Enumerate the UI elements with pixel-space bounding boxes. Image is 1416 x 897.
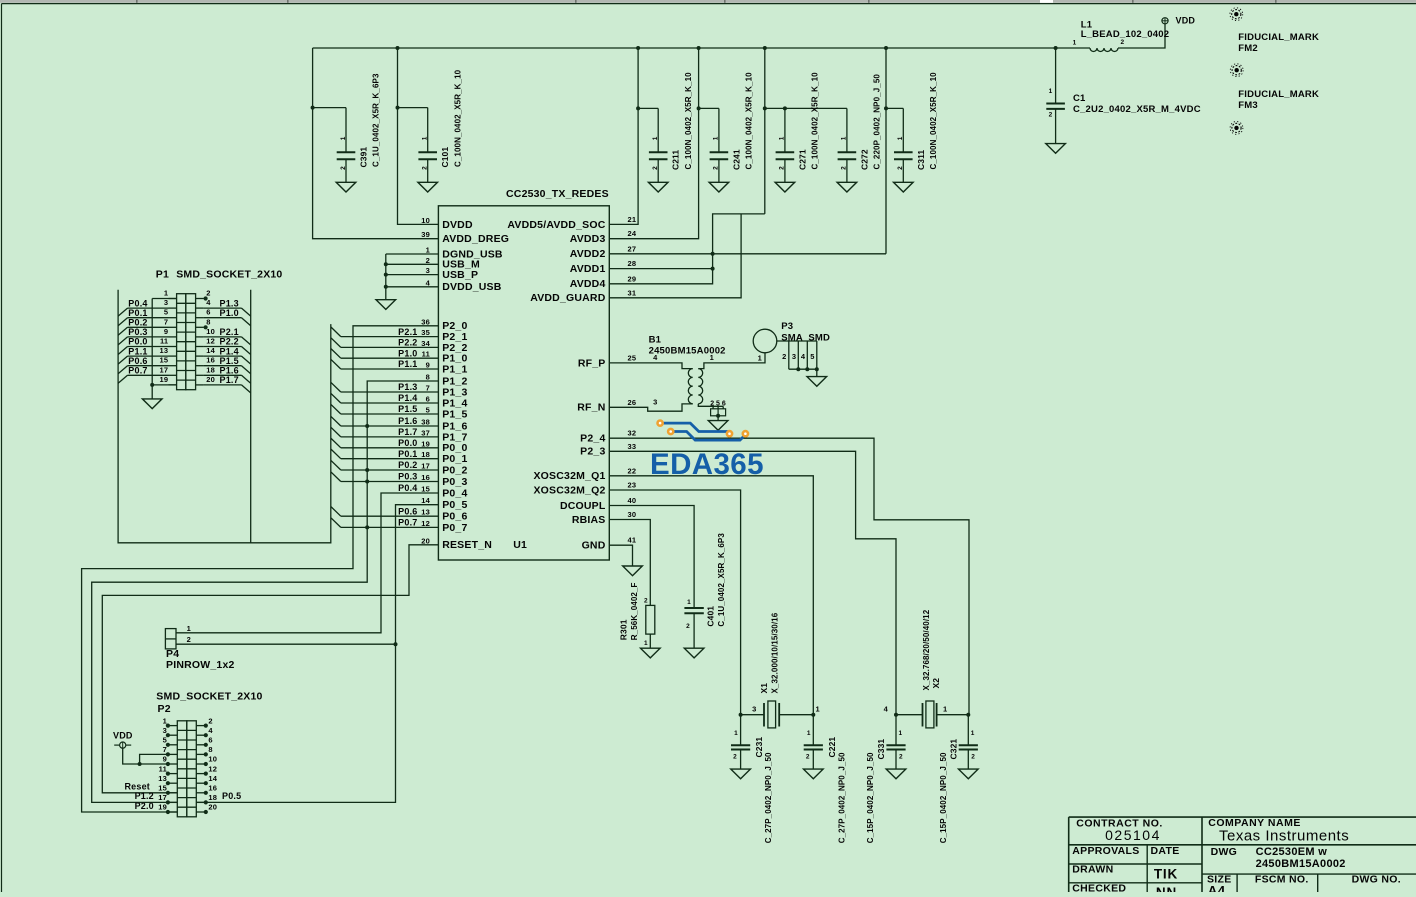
- svg-text:34: 34: [421, 339, 430, 348]
- svg-text:16: 16: [206, 356, 215, 365]
- svg-text:10: 10: [208, 755, 217, 764]
- sheet border top: [2, 3, 1416, 5]
- wire XOSC32M_Q2 net (pin 23 to X1 left): [609, 490, 740, 715]
- top gray ruler bar: [0, 0, 1416, 3]
- node junction C391: [311, 106, 315, 110]
- svg-text:1: 1: [1073, 40, 1077, 47]
- pin 2 P2 right stub: [196, 725, 204, 727]
- svg-text:8: 8: [426, 373, 430, 382]
- wire C391 lead to gnd: [345, 159, 347, 182]
- svg-text:P0_1: P0_1: [442, 453, 467, 465]
- wire balun secondary bottom to pins 2,5,6: [698, 404, 723, 406]
- svg-text:19: 19: [421, 439, 430, 448]
- svg-text:20: 20: [208, 803, 217, 812]
- svg-text:23: 23: [628, 481, 637, 490]
- node junction P1 pin19: [150, 383, 154, 387]
- pin 5 P1 left stub: [169, 317, 177, 319]
- node junction P3 pin3: [796, 367, 800, 371]
- svg-text:25: 25: [628, 353, 637, 362]
- svg-text:AVDD_DREG: AVDD_DREG: [442, 233, 509, 245]
- wire P1.4 to U1: [341, 402, 439, 404]
- wire P0.0 bus entry: [331, 438, 341, 448]
- svg-text:4: 4: [653, 353, 658, 362]
- wire P0.6 to P1: [128, 365, 169, 367]
- svg-text:3: 3: [164, 298, 168, 307]
- pin 13 P2 left stub: [170, 782, 178, 784]
- pin 18 P1 right stub: [196, 374, 204, 376]
- svg-text:2: 2: [733, 754, 737, 761]
- svg-text:6: 6: [426, 395, 430, 404]
- svg-text:27: 27: [628, 244, 637, 253]
- svg-text:P1.7: P1.7: [398, 427, 417, 437]
- svg-text:1: 1: [897, 136, 904, 140]
- node junction VDD: [138, 762, 142, 766]
- svg-text:2: 2: [782, 352, 786, 361]
- svg-text:1: 1: [687, 599, 691, 606]
- svg-text:8: 8: [206, 317, 210, 326]
- wire P0.4 to P1: [128, 307, 169, 309]
- svg-text:2: 2: [841, 166, 848, 170]
- svg-text:18: 18: [208, 793, 217, 802]
- svg-text:17: 17: [158, 793, 167, 802]
- transformer B1 right winding: [698, 369, 702, 404]
- svg-text:P0_4: P0_4: [442, 487, 467, 499]
- pin 11 P2 left stub: [170, 773, 178, 775]
- svg-text:C401: C401: [706, 606, 716, 627]
- svg-text:2: 2: [426, 256, 430, 265]
- svg-text:FIDUCIAL_MARK: FIDUCIAL_MARK: [1238, 89, 1319, 100]
- pin 18 P2 right stub: [196, 801, 204, 803]
- svg-text:P1.5: P1.5: [220, 356, 239, 366]
- svg-text:2: 2: [899, 754, 903, 761]
- logo pad 1: [658, 421, 663, 426]
- wire P0.1 bus entry: [118, 318, 127, 326]
- pin 14 P2 right stub: [196, 782, 204, 784]
- svg-text:3: 3: [792, 352, 796, 361]
- wire P2.2 from P1: [204, 346, 242, 348]
- node junction P1.2/P0.7: [365, 525, 369, 529]
- svg-text:DWG NO.: DWG NO.: [1352, 873, 1401, 885]
- svg-text:C1: C1: [1073, 93, 1086, 104]
- svg-text:VDD: VDD: [1176, 16, 1196, 26]
- ground C1: [1046, 144, 1066, 154]
- svg-text:6: 6: [206, 308, 210, 317]
- svg-text:X1: X1: [759, 683, 769, 694]
- wire AVDD_DREG (C391 stem down to U1 pin 39): [313, 48, 439, 239]
- svg-text:AVDD5/AVDD_SOC: AVDD5/AVDD_SOC: [507, 219, 605, 231]
- svg-text:C_100N_0402_X5R_K_10: C_100N_0402_X5R_K_10: [745, 72, 754, 170]
- power VDD P2: [120, 742, 126, 748]
- svg-text:5: 5: [716, 400, 720, 407]
- svg-text:33: 33: [628, 442, 637, 451]
- svg-text:1: 1: [943, 705, 947, 714]
- wire C311 lead: [902, 159, 904, 182]
- capacitor C221 stem: [812, 715, 814, 746]
- pin 17 P1 left stub: [169, 374, 177, 376]
- wire P1.7 bus entry: [242, 385, 251, 393]
- wire P1.1 to P1: [128, 355, 169, 357]
- op-amp U1 CC2530_TX_REDES body: [438, 206, 609, 560]
- svg-text:8: 8: [208, 745, 212, 754]
- wire P1.0 from P1: [204, 317, 242, 319]
- wire RF_N (pin 26 to balun pin 3): [609, 404, 692, 411]
- svg-text:20: 20: [206, 375, 215, 384]
- svg-text:AVDD4: AVDD4: [570, 278, 606, 290]
- svg-text:C_27P_0402_NP0_J_50: C_27P_0402_NP0_J_50: [837, 752, 846, 843]
- svg-text:C272: C272: [859, 149, 869, 170]
- svg-text:SMD_SOCKET_2X10: SMD_SOCKET_2X10: [176, 269, 282, 281]
- wire P0.3 to P1: [128, 336, 169, 338]
- svg-text:2: 2: [971, 754, 975, 761]
- svg-text:P0.6: P0.6: [398, 506, 417, 516]
- wire P2.2 bus entry: [331, 338, 341, 348]
- capacitor C271: [776, 151, 795, 153]
- svg-text:XOSC32M_Q1: XOSC32M_Q1: [533, 470, 605, 482]
- wire DCOUPL net (pin 40 to C401): [609, 506, 694, 609]
- svg-text:32: 32: [628, 429, 637, 438]
- wire P2.2 bus entry: [242, 347, 251, 355]
- wire P0.7 bus entry: [331, 518, 341, 528]
- node junction C211: [636, 106, 640, 110]
- wire P1.5 bus entry: [242, 366, 251, 374]
- svg-text:P0.4: P0.4: [128, 298, 147, 308]
- wire L1 to VDD: [1118, 24, 1165, 48]
- pin 4 P2 right stub: [196, 734, 204, 736]
- node junction X2 left: [894, 713, 898, 717]
- svg-text:31: 31: [628, 288, 637, 297]
- svg-text:DWG: DWG: [1211, 846, 1238, 858]
- ground C241: [709, 182, 729, 192]
- svg-text:10: 10: [206, 327, 215, 336]
- node junction C101: [396, 106, 400, 110]
- svg-text:A4: A4: [1208, 884, 1226, 893]
- svg-text:RBIAS: RBIAS: [572, 514, 606, 526]
- svg-text:11: 11: [422, 350, 430, 359]
- svg-text:P1.4: P1.4: [398, 393, 417, 403]
- pin 10 P1 right stub: [196, 336, 204, 338]
- title block frame: [1069, 816, 1416, 818]
- connector P3 SMA_SMD circle: [753, 329, 777, 353]
- crystal X2: [896, 714, 923, 716]
- svg-text:7: 7: [164, 317, 168, 326]
- ground DGND_USB: [376, 300, 396, 310]
- wire AVDD3 net (pin 24 up to bus): [609, 48, 698, 239]
- wire P0.7 to P1: [128, 374, 169, 376]
- svg-text:TIK: TIK: [1154, 866, 1178, 881]
- ground C272: [837, 182, 857, 192]
- svg-text:P1.1: P1.1: [398, 359, 417, 369]
- svg-text:AVDD1: AVDD1: [570, 263, 606, 275]
- svg-text:P0_2: P0_2: [442, 464, 467, 476]
- wire AVDD_SOC / C311 riser (pin 27 long wire): [885, 48, 887, 254]
- svg-text:C241: C241: [731, 149, 741, 170]
- wire P1.6 bus entry: [242, 375, 251, 383]
- pin 14 P1 right stub: [196, 355, 204, 357]
- svg-text:5: 5: [164, 308, 168, 317]
- wire P0.1 to P1: [128, 317, 169, 319]
- svg-text:P0.5: P0.5: [222, 791, 241, 801]
- svg-text:35: 35: [421, 328, 430, 337]
- svg-text:13: 13: [421, 508, 430, 517]
- wire P0.2 bus entry: [331, 460, 341, 470]
- svg-text:B1: B1: [649, 334, 662, 345]
- wire P0.2 to U1: [341, 469, 439, 471]
- svg-text:5: 5: [426, 406, 430, 415]
- node junction P1.2/P1.6: [365, 424, 369, 428]
- svg-text:Reset: Reset: [124, 782, 150, 792]
- wire P3 gnd lead: [816, 369, 818, 376]
- wire C101 top connection: [398, 107, 428, 109]
- svg-text:38: 38: [421, 418, 430, 427]
- pin 12 P1 right stub: [196, 346, 204, 348]
- node junction P3 pin5: [815, 367, 819, 371]
- svg-text:1: 1: [164, 289, 168, 298]
- wire C391 top connection: [313, 107, 346, 109]
- pin 15 P2 left stub: [170, 792, 178, 794]
- wire AVDD_GUARD (pin 31): [609, 214, 741, 298]
- fiducial mark FM3: [1234, 126, 1238, 130]
- pin 2 P1 unconnected dot: [204, 296, 208, 300]
- pin 9 P1 left stub: [169, 336, 177, 338]
- svg-text:3: 3: [752, 705, 756, 714]
- svg-text:Texas Instruments: Texas Instruments: [1219, 828, 1349, 845]
- svg-text:C_100N_0402_X5R_K_10: C_100N_0402_X5R_K_10: [684, 72, 693, 170]
- svg-text:2: 2: [710, 400, 714, 407]
- svg-text:P0.1: P0.1: [128, 308, 147, 318]
- svg-text:2: 2: [779, 166, 786, 170]
- svg-text:14: 14: [208, 774, 217, 783]
- svg-text:P2.0: P2.0: [135, 801, 154, 811]
- svg-text:6: 6: [722, 400, 726, 407]
- svg-text:AVDD_GUARD: AVDD_GUARD: [530, 292, 606, 304]
- pin 4 P1 right stub: [196, 307, 204, 309]
- wire Reset net (U1 pin20 RESET_N to P2 pin15): [102, 545, 438, 793]
- svg-text:1: 1: [652, 136, 659, 140]
- svg-text:P3: P3: [781, 321, 793, 332]
- svg-text:P0.3: P0.3: [398, 472, 417, 482]
- svg-text:16: 16: [421, 473, 430, 482]
- svg-text:10: 10: [421, 216, 430, 225]
- capacitor C101: [418, 151, 437, 153]
- node junction P0.5/P4: [394, 642, 398, 646]
- node junction balun gnd: [716, 414, 720, 418]
- ground P3: [807, 377, 827, 387]
- wire P1.3 from P1: [204, 307, 242, 309]
- node junction P3 pin4: [805, 367, 809, 371]
- svg-text:PINROW_1x2: PINROW_1x2: [166, 659, 235, 671]
- svg-text:C391: C391: [359, 147, 369, 168]
- balun pins 2,5,6 tie box: [711, 409, 726, 416]
- svg-text:3: 3: [163, 726, 167, 735]
- wire P1 gnd rail (pin1 to pin19): [151, 299, 153, 385]
- svg-text:C101: C101: [440, 147, 450, 168]
- wire P1.4 bus entry: [242, 356, 251, 364]
- wire P2_4 net (pin 32 to X2 right): [609, 438, 969, 715]
- svg-text:C221: C221: [827, 737, 837, 758]
- connector P1 body grid: [177, 294, 186, 390]
- svg-text:2: 2: [897, 166, 904, 170]
- svg-text:3: 3: [426, 266, 430, 275]
- svg-text:P2.2: P2.2: [220, 337, 239, 347]
- svg-text:C211: C211: [671, 150, 681, 170]
- capacitor C231: [731, 744, 750, 746]
- wire P3 shield pins: [777, 340, 817, 342]
- wire XOSC32M_Q1 net (pin 22 to X1 right): [609, 476, 813, 715]
- svg-text:14: 14: [206, 346, 215, 355]
- svg-text:1: 1: [1049, 88, 1053, 95]
- svg-text:24: 24: [628, 229, 637, 238]
- wire VDD to P2 pins 7,9: [123, 748, 170, 764]
- fiducial mark FM2: [1235, 68, 1239, 72]
- ground C271: [775, 182, 795, 192]
- pin 1 P1 left stub: [169, 298, 177, 300]
- wire P2.1 bus entry: [331, 327, 341, 337]
- capacitor C221: [804, 744, 823, 746]
- wire P1.0 bus entry: [331, 349, 341, 359]
- pin 7 P2 left stub: [170, 753, 178, 755]
- svg-text:P0.0: P0.0: [398, 438, 417, 448]
- svg-text:13: 13: [158, 774, 167, 783]
- svg-text:DATE: DATE: [1151, 845, 1180, 857]
- svg-text:C_220P_0402_NP0_J_50: C_220P_0402_NP0_J_50: [873, 74, 882, 170]
- pin 19 P2 left stub: [170, 811, 178, 813]
- svg-text:16: 16: [208, 784, 217, 793]
- pin 8 P1 right stub: [196, 326, 204, 328]
- svg-text:39: 39: [421, 230, 430, 239]
- wire C101 lead: [427, 159, 429, 182]
- svg-text:P0.2: P0.2: [128, 318, 147, 328]
- svg-text:CC2530_TX_REDES: CC2530_TX_REDES: [506, 188, 609, 200]
- svg-text:NN: NN: [1156, 885, 1177, 892]
- node junction C271 tap: [783, 106, 787, 110]
- ground C101: [418, 182, 438, 192]
- svg-text:C231: C231: [754, 737, 764, 758]
- wire P0.2 bus entry: [118, 327, 127, 335]
- svg-text:P1.1: P1.1: [128, 346, 147, 356]
- logo pad 4: [743, 431, 748, 436]
- wire P2.2 to U1: [341, 346, 439, 348]
- svg-text:5: 5: [163, 736, 167, 745]
- wire P1.3 to U1: [341, 391, 439, 393]
- wire P0.3 bus entry: [331, 472, 341, 482]
- capacitor C321 stem: [967, 715, 969, 746]
- svg-text:1: 1: [758, 353, 762, 362]
- node junction C311: [884, 106, 888, 110]
- svg-text:P0.1: P0.1: [398, 449, 417, 459]
- node junction C271 riser: [763, 106, 767, 110]
- inductor L1: [1090, 48, 1118, 52]
- node junction X1 right: [811, 713, 815, 717]
- ground R301: [641, 648, 661, 658]
- ground C331: [886, 769, 906, 779]
- svg-text:P1.3: P1.3: [220, 298, 239, 308]
- capacitor C401: [684, 607, 703, 609]
- pin 8 P2 right stub: [196, 753, 204, 755]
- svg-text:GND: GND: [582, 540, 606, 552]
- wire C321 lead: [967, 750, 969, 769]
- wire P0.0 to U1: [341, 447, 439, 449]
- svg-text:14: 14: [421, 496, 430, 505]
- svg-text:C_100N_0402_X5R_K_10: C_100N_0402_X5R_K_10: [811, 72, 820, 170]
- svg-text:P1.0: P1.0: [398, 348, 417, 358]
- wire top VDD bus: [313, 47, 1090, 49]
- wire C211 lead: [657, 159, 659, 182]
- svg-text:1: 1: [899, 730, 903, 737]
- svg-text:P1.7: P1.7: [220, 375, 239, 385]
- svg-text:P2.1: P2.1: [398, 327, 417, 337]
- wire P1.5 to U1: [341, 413, 439, 415]
- wire P1.7 to U1: [341, 436, 439, 438]
- pin 12 P2 right stub: [196, 773, 204, 775]
- svg-text:1: 1: [841, 136, 848, 140]
- wire P1.6 from P1: [204, 374, 242, 376]
- svg-text:2: 2: [806, 754, 810, 761]
- node junction DVDD_USB: [384, 285, 388, 289]
- svg-text:1: 1: [713, 136, 720, 140]
- pin 7 P1 left stub: [169, 326, 177, 328]
- capacitor C321: [959, 744, 978, 746]
- svg-text:17: 17: [421, 462, 430, 471]
- svg-text:15: 15: [421, 485, 430, 494]
- wire DGND_USB group: [386, 253, 439, 255]
- svg-text:P0.6: P0.6: [128, 356, 147, 366]
- svg-text:C271: C271: [797, 149, 807, 170]
- svg-text:C_100N_0402_X5R_K_10: C_100N_0402_X5R_K_10: [453, 69, 462, 167]
- transformer B1 left winding: [688, 369, 692, 404]
- svg-text:P0_5: P0_5: [442, 499, 467, 511]
- wire C241 top connection: [699, 107, 719, 109]
- svg-text:19: 19: [158, 803, 167, 812]
- svg-text:X2: X2: [931, 678, 941, 689]
- svg-text:40: 40: [628, 496, 637, 505]
- svg-text:C321: C321: [949, 739, 959, 760]
- svg-text:P0.7: P0.7: [128, 366, 147, 376]
- wire C1 stem: [1055, 48, 1057, 104]
- wire P1.3 bus entry: [242, 308, 251, 316]
- wire P1.4 bus entry: [331, 393, 341, 403]
- svg-text:3: 3: [653, 398, 657, 407]
- wire P2.1 from P1: [204, 336, 242, 338]
- wire P0.7 bus entry: [118, 375, 127, 383]
- svg-text:SMD_SOCKET_2X10: SMD_SOCKET_2X10: [156, 690, 262, 702]
- svg-text:1: 1: [644, 640, 648, 647]
- svg-text:1: 1: [971, 730, 975, 737]
- pin 6 P1 right stub: [196, 317, 204, 319]
- ground balun: [708, 421, 728, 431]
- wire C1 lead: [1055, 109, 1057, 144]
- svg-text:025104: 025104: [1105, 827, 1161, 843]
- svg-text:9: 9: [426, 361, 430, 370]
- wire balun gnd lead: [717, 416, 719, 421]
- ground C221: [804, 769, 824, 779]
- svg-text:DRAWN: DRAWN: [1072, 864, 1113, 876]
- wire C401 lead: [693, 613, 695, 648]
- wire RF_P (pin 25 to balun pin 4): [609, 363, 692, 369]
- svg-text:P1.6: P1.6: [398, 416, 417, 426]
- wire P0.6 to U1: [341, 515, 439, 517]
- wire C271 lead: [784, 159, 786, 182]
- ground U1 GND: [623, 566, 643, 576]
- svg-text:13: 13: [160, 346, 169, 355]
- svg-text:12: 12: [208, 764, 217, 773]
- wire P1.6 to U1: [341, 425, 439, 427]
- crystal X1: [741, 714, 764, 716]
- capacitor C331: [886, 744, 905, 746]
- svg-text:CC2530EM w: CC2530EM w: [1256, 846, 1328, 858]
- svg-text:P1.3: P1.3: [398, 382, 417, 392]
- svg-text:FSCM NO.: FSCM NO.: [1255, 873, 1309, 885]
- svg-text:2: 2: [713, 166, 720, 170]
